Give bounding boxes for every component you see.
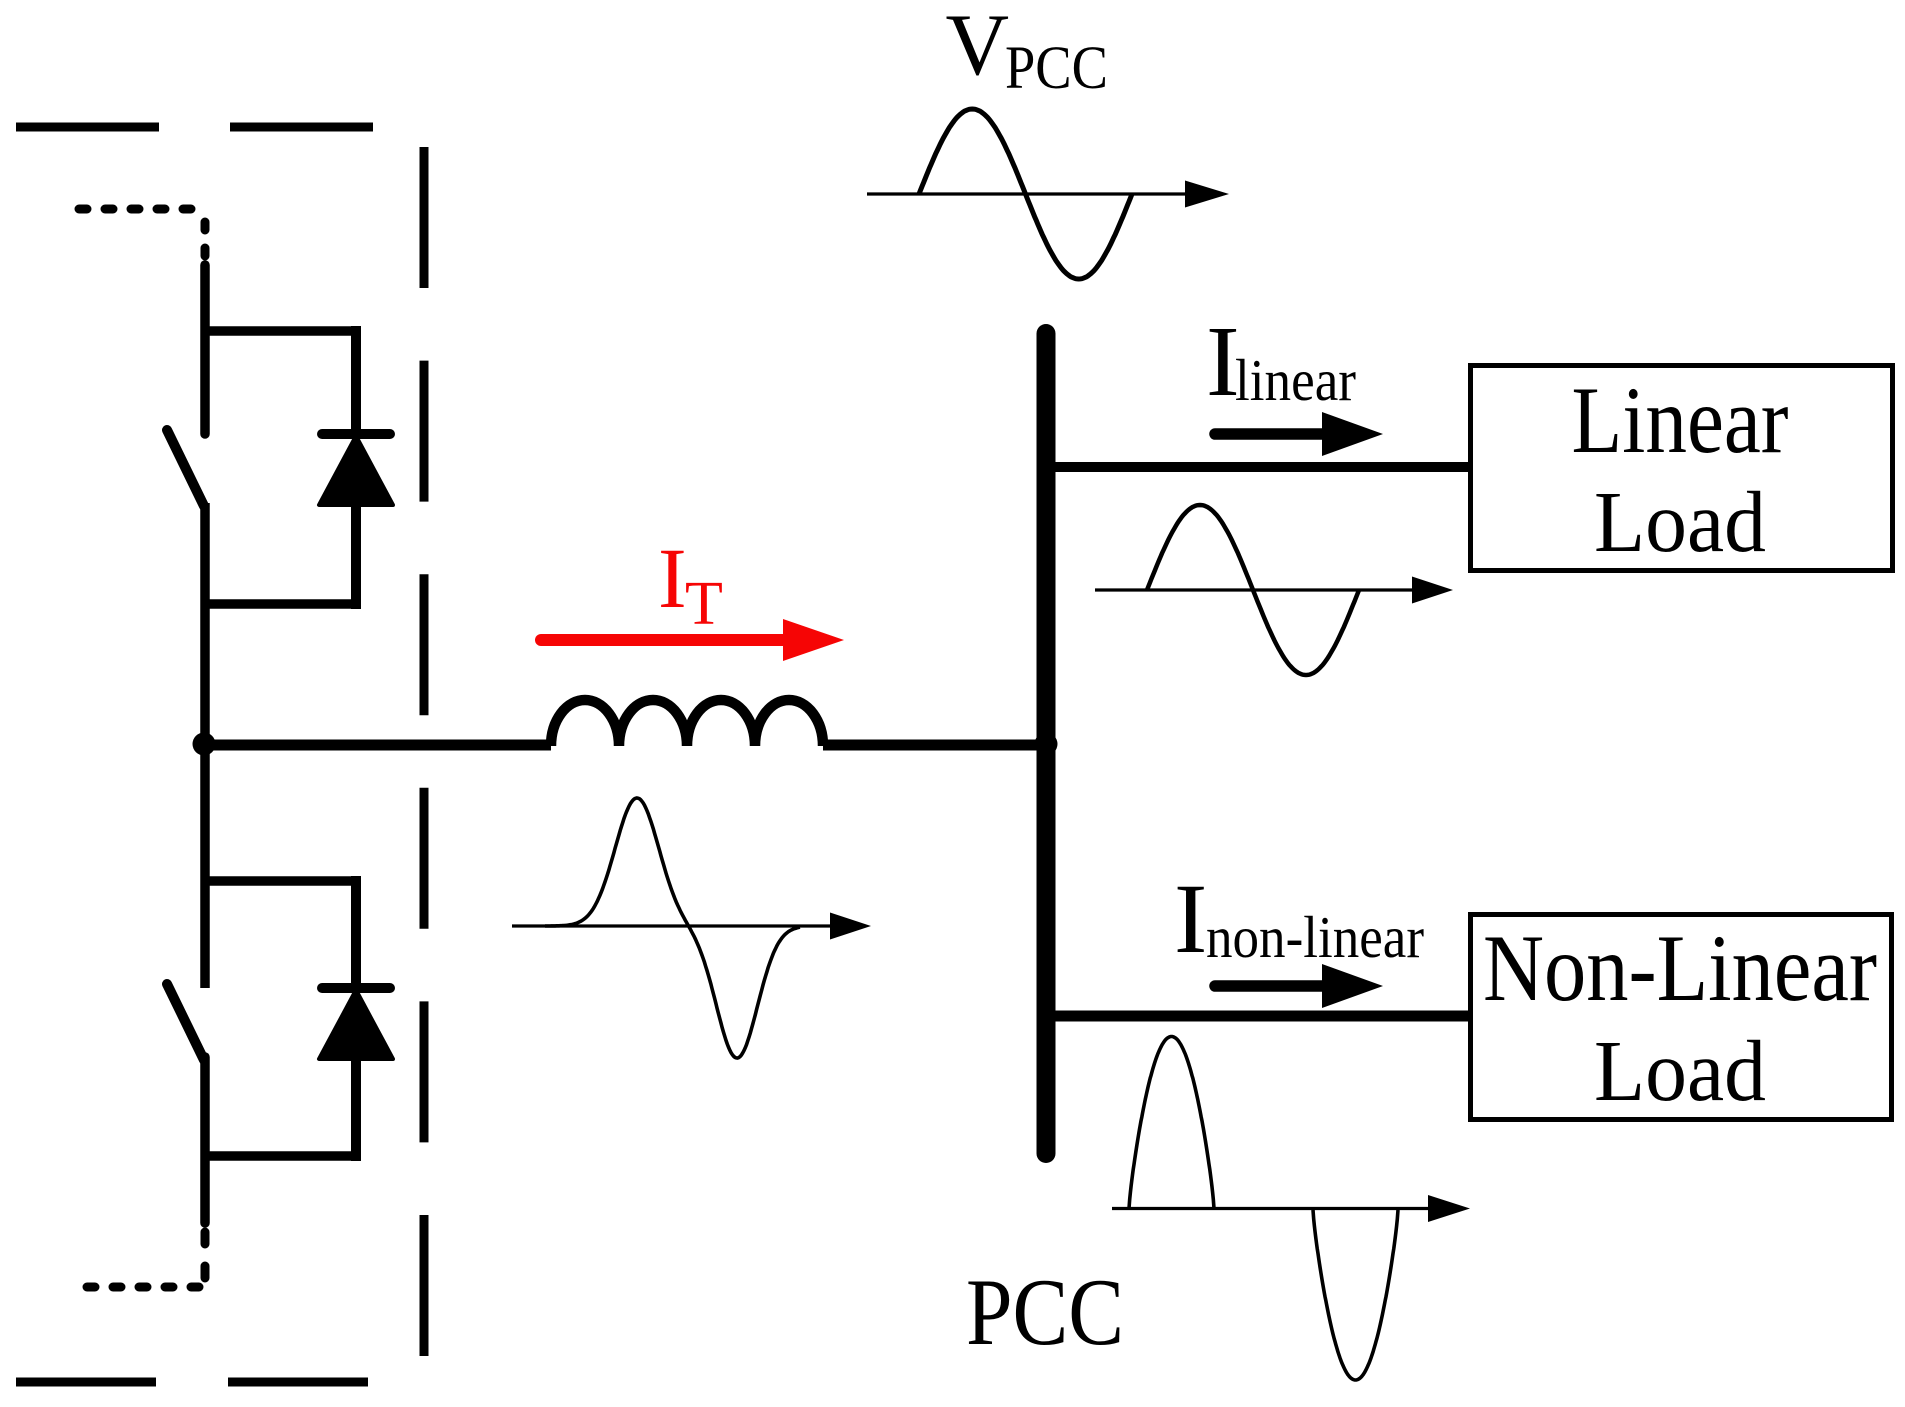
svg-text:PCC: PCC: [966, 1259, 1124, 1365]
svg-text:I: I: [1174, 863, 1207, 974]
svg-text:Non-Linear: Non-Linear: [1483, 915, 1877, 1021]
svg-text:Load: Load: [1594, 473, 1766, 570]
svg-text:PCC: PCC: [1005, 35, 1108, 102]
svg-text:linear: linear: [1235, 347, 1356, 413]
svg-text:T: T: [685, 570, 723, 638]
svg-text:non-linear: non-linear: [1206, 904, 1424, 970]
svg-text:V: V: [946, 0, 1010, 94]
svg-text:Linear: Linear: [1572, 367, 1789, 473]
svg-text:I: I: [658, 530, 687, 626]
svg-text:Load: Load: [1594, 1022, 1766, 1119]
